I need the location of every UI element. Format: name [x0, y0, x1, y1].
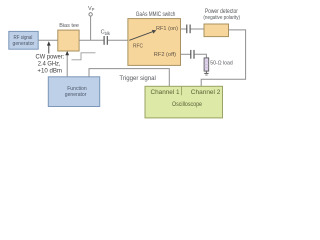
- wire: bias tee to Cblk capacitor: [79, 39, 104, 41]
- wire: capacitor to 50-ohm load: [194, 54, 206, 58]
- svg-text:RFC: RFC: [133, 43, 143, 49]
- GaAs MMIC switch: [128, 11, 181, 65]
- svg-text:Cblk: Cblk: [101, 30, 111, 36]
- svg-text:generator: generator: [65, 92, 87, 98]
- wire: MMIC RF1 output: [181, 28, 187, 30]
- wire: Vp node down to RF line: [90, 16, 92, 40]
- svg-text:Channel 2: Channel 2: [191, 89, 221, 96]
- oscilloscope: [145, 86, 223, 118]
- svg-text:Channel 1: Channel 1: [151, 89, 181, 96]
- CW power callout arrow: [47, 41, 51, 53]
- RF signal generator: [9, 31, 38, 49]
- wire: power detector to oscilloscope channel 2: [201, 30, 245, 86]
- function generator: [48, 77, 99, 107]
- capacitor Cblk: [101, 30, 111, 45]
- wire: MMIC RF2 output: [181, 53, 191, 55]
- CW power label: [36, 54, 65, 75]
- node Vp: [88, 6, 95, 16]
- svg-text:VP: VP: [88, 6, 95, 12]
- svg-text:GaAs MMIC switch: GaAs MMIC switch: [136, 11, 176, 18]
- switch arm with arrow: [129, 30, 156, 40]
- svg-text:+10 dBm: +10 dBm: [37, 68, 62, 75]
- wire: function generator to bias tee with arrow: [65, 51, 69, 77]
- svg-text:Trigger signal: Trigger signal: [119, 75, 155, 82]
- power detector: [203, 9, 240, 36]
- wire: Cblk to MMIC switch: [108, 39, 128, 41]
- capacitor on RF2 path: [191, 50, 194, 59]
- wire: RF generator to bias tee: [38, 39, 58, 41]
- svg-text:2.4 GHz,: 2.4 GHz,: [38, 61, 61, 68]
- capacitor on RF1 path: [187, 25, 190, 34]
- svg-text:RF signal: RF signal: [14, 35, 33, 41]
- svg-text:Oscilloscope: Oscilloscope: [172, 101, 202, 108]
- ground: [204, 71, 208, 75]
- channel divider tick: [181, 86, 183, 95]
- svg-text:50-Ω load: 50-Ω load: [210, 61, 232, 67]
- svg-text:RF1 (on): RF1 (on): [156, 26, 178, 32]
- wire: capacitor to power detector: [190, 28, 204, 30]
- 50-ohm load: [204, 58, 209, 71]
- pulse waveform glyph: [72, 53, 96, 60]
- svg-text:Bias tee: Bias tee: [59, 23, 79, 29]
- bias tee: [58, 23, 79, 51]
- svg-text:RF2 (off): RF2 (off): [154, 52, 176, 58]
- svg-text:generator: generator: [13, 41, 35, 47]
- svg-text:(negative polarity): (negative polarity): [203, 15, 240, 21]
- trigger signal wire: [89, 69, 169, 87]
